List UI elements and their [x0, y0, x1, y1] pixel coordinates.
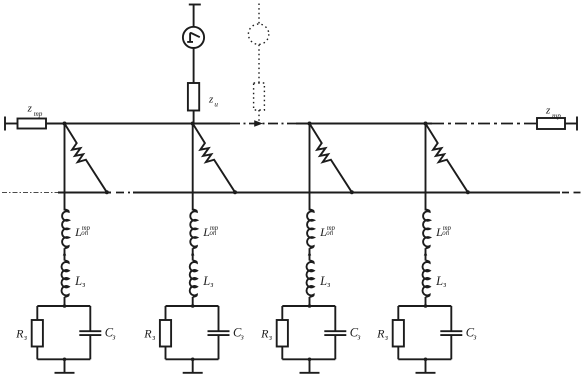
node between inductors 4 — [424, 251, 427, 256]
wire lower line main section — [133, 192, 560, 194]
node between inductors 3 — [308, 251, 311, 256]
svg-text:з: з — [111, 333, 115, 342]
node flashover arrow 2 tip on lower line — [233, 190, 237, 194]
resistor phantom z (dotted box) — [254, 83, 265, 110]
wire top bus solid middle section — [296, 123, 432, 125]
wire RC rect bottom edge 2 — [166, 358, 219, 360]
wire between inductors 1 — [64, 248, 66, 260]
terminal right — [576, 117, 578, 131]
label L_з 3 — [319, 274, 330, 289]
resistor R_з 3 — [277, 320, 288, 347]
svg-text:z: z — [545, 105, 551, 117]
svg-text:L: L — [319, 274, 327, 288]
resistor R_з 2 — [160, 320, 171, 347]
svg-text:з: з — [442, 280, 446, 289]
label L_з 4 — [435, 274, 446, 289]
ground 3 — [300, 372, 320, 374]
wire ground stub 4 — [425, 359, 427, 372]
wire between inductors 3 — [309, 248, 311, 260]
node RC bottom 2 — [191, 358, 195, 362]
resistor z_тр left — [18, 119, 47, 129]
label C_з 1 — [105, 325, 116, 341]
flashover arrow tower 3 (diagonal with zigzag) — [310, 124, 352, 193]
impulse source phantom (dotted circle) — [248, 24, 268, 44]
svg-text:тр: тр — [552, 112, 561, 120]
svg-text:з: з — [326, 280, 330, 289]
wire left terminal to z_tr — [5, 123, 18, 125]
ground 4 — [416, 372, 436, 374]
label L_оп^тр 3 — [319, 225, 336, 239]
wire RC right edge lower 1 — [89, 335, 91, 359]
node tower junction 3 on top bus — [308, 122, 312, 126]
wire lower line dashed right end — [562, 192, 582, 194]
wire lower line dashed segment — [116, 192, 133, 194]
capacitor C_з 4 — [440, 331, 462, 335]
svg-text:з: з — [268, 333, 272, 342]
label z_тр right — [545, 105, 561, 120]
node tower junction 1 on top bus — [63, 122, 67, 126]
svg-text:з: з — [472, 333, 476, 342]
svg-text:R: R — [376, 327, 385, 341]
svg-text:L: L — [202, 274, 210, 288]
node flashover arrow 3 tip on lower line — [350, 190, 354, 194]
wire ground stub 3 — [309, 359, 311, 372]
inductor L_оп^тр 3 — [307, 210, 314, 249]
svg-text:R: R — [143, 327, 152, 341]
wire inductor to RC network 4 — [425, 297, 427, 306]
capacitor C_з 3 — [324, 331, 346, 335]
terminal left — [4, 117, 6, 131]
wire tower 1 vertical — [64, 124, 66, 211]
svg-text:з: з — [23, 333, 27, 342]
label R_з 3 — [260, 327, 272, 342]
svg-text:з: з — [81, 280, 85, 289]
svg-text:оп: оп — [442, 230, 449, 237]
inductor L_оп^тр 4 — [423, 210, 430, 249]
wire tower 2 vertical — [192, 124, 194, 211]
wire RC right edge lower 4 — [450, 335, 452, 359]
wire RC rect bottom edge 1 — [37, 358, 90, 360]
wire tower 4 vertical — [425, 124, 427, 211]
wire phantom dotted top lead — [258, 4, 260, 24]
wire lower line segment 1 — [58, 192, 111, 194]
label L_з 2 — [202, 274, 213, 289]
inductor L_з 4 — [423, 261, 430, 297]
wire inductor to RC network 1 — [64, 297, 66, 306]
inductor L_оп^тр 1 — [62, 210, 69, 249]
svg-text:R: R — [260, 327, 269, 341]
resistor z_и — [188, 83, 199, 111]
wire RC left edge lower 2 — [165, 347, 167, 360]
node RC bottom 4 — [424, 358, 428, 362]
svg-text:и: и — [214, 101, 218, 109]
inductor L_з 2 — [190, 261, 197, 297]
wire phantom dotted middle lead — [258, 45, 260, 83]
label L_оп^тр 2 — [202, 225, 219, 239]
node between inductors 2 — [191, 251, 194, 256]
node between inductors 1 — [63, 251, 66, 256]
wire terminal to source — [193, 5, 195, 27]
wire inductor to RC network 3 — [309, 297, 311, 306]
wire top bus dash-dot section right — [432, 123, 537, 125]
wire RC left edge lower 1 — [36, 347, 38, 360]
resistor z_тр right — [537, 118, 565, 129]
node RC bottom 3 — [308, 358, 312, 362]
wire RC left edge upper 1 — [36, 306, 38, 320]
node phantom junction arrow on bus — [254, 120, 263, 127]
svg-text:z: z — [27, 103, 33, 115]
wire z_и to bus — [193, 111, 195, 124]
capacitor C_з 2 — [208, 331, 230, 335]
wire RC left edge lower 4 — [397, 347, 399, 360]
wire RC rect bottom edge 3 — [282, 358, 335, 360]
svg-text:тр: тр — [34, 110, 43, 118]
wire RC right edge lower 3 — [334, 335, 336, 359]
node RC top 1 — [63, 304, 67, 308]
node tower junction 4 on top bus — [424, 122, 428, 126]
wire RC left edge upper 4 — [397, 306, 399, 320]
svg-text:R: R — [15, 327, 24, 341]
svg-text:оп: оп — [81, 230, 88, 237]
wire z_tr right to terminal — [565, 123, 577, 125]
wire RC right edge upper 2 — [218, 306, 220, 331]
svg-text:з: з — [209, 280, 213, 289]
wire RC left edge upper 3 — [281, 306, 283, 320]
terminal source top — [189, 4, 201, 6]
svg-text:оп: оп — [210, 230, 217, 237]
svg-text:з: з — [356, 333, 360, 342]
label L_з 1 — [74, 274, 85, 289]
wire ground stub 1 — [64, 359, 66, 372]
inductor L_з 1 — [62, 261, 69, 297]
wire RC rect bottom edge 4 — [398, 358, 451, 360]
wire tower 3 vertical — [309, 124, 311, 211]
capacitor C_з 1 — [79, 331, 101, 335]
svg-text:L: L — [74, 274, 82, 288]
node RC top 4 — [424, 304, 428, 308]
flashover arrow tower 1 (diagonal with zigzag) — [65, 124, 107, 193]
wire RC rect top edge 1 — [37, 305, 90, 307]
wire RC right edge upper 3 — [334, 306, 336, 331]
flashover arrow tower 4 (diagonal with zigzag) — [426, 124, 468, 193]
resistor R_з 4 — [393, 320, 404, 347]
ground 1 — [55, 372, 75, 374]
label C_з 3 — [350, 325, 361, 341]
wire between inductors 4 — [425, 248, 427, 260]
node tower junction 2 on top bus — [191, 122, 195, 126]
wire phantom dotted bottom lead — [258, 110, 260, 123]
inductor L_оп^тр 2 — [190, 210, 197, 249]
wire inductor to RC network 2 — [192, 297, 194, 306]
ground 2 — [183, 372, 203, 374]
impulse source G1 (circle with surge wave) — [183, 27, 204, 48]
wire RC left edge lower 3 — [281, 347, 283, 360]
node flashover arrow 4 tip on lower line — [466, 190, 470, 194]
svg-text:z: z — [208, 94, 214, 106]
svg-text:з: з — [384, 333, 388, 342]
label C_з 4 — [466, 325, 477, 341]
wire RC left edge upper 2 — [165, 306, 167, 320]
label z_тр left — [27, 103, 43, 118]
resistor R_з 1 — [32, 320, 43, 347]
svg-text:з: з — [240, 333, 244, 342]
label z_и — [208, 94, 218, 109]
wire lower line dash-dot left end — [2, 192, 58, 194]
label R_з 1 — [15, 327, 27, 342]
svg-text:L: L — [435, 274, 443, 288]
wire source to z_и — [193, 48, 195, 83]
wire RC right edge upper 4 — [450, 306, 452, 331]
label L_оп^тр 1 — [74, 225, 91, 239]
node RC top 2 — [191, 304, 195, 308]
wire top bus solid left section — [46, 123, 230, 125]
wire RC right edge lower 2 — [218, 335, 220, 359]
node RC top 3 — [308, 304, 312, 308]
wire RC rect top edge 3 — [282, 305, 335, 307]
label C_з 2 — [233, 325, 244, 341]
node flashover arrow 1 tip on lower line — [105, 190, 109, 194]
node RC bottom 1 — [63, 358, 67, 362]
svg-text:з: з — [151, 333, 155, 342]
wire between inductors 2 — [192, 248, 194, 260]
flashover arrow tower 2 (diagonal with zigzag) — [193, 124, 235, 193]
label R_з 2 — [143, 327, 155, 342]
wire ground stub 2 — [192, 359, 194, 372]
label R_з 4 — [376, 327, 388, 342]
inductor L_з 3 — [307, 261, 314, 297]
label L_оп^тр 4 — [435, 225, 452, 239]
wire RC rect top edge 4 — [398, 305, 451, 307]
wire top bus dash-dot section (continuation) — [230, 123, 296, 125]
wire RC right edge upper 1 — [89, 306, 91, 331]
wire RC rect top edge 2 — [166, 305, 219, 307]
svg-text:оп: оп — [326, 230, 333, 237]
